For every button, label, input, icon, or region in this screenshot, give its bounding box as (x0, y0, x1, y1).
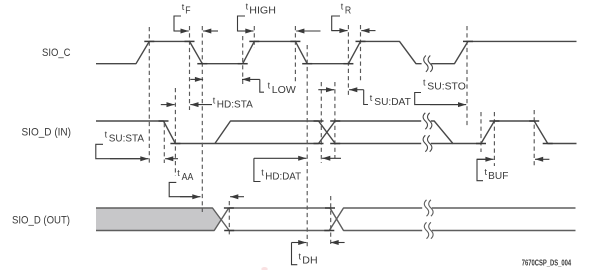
dashed guide line SIO_C fall2 end (306, 45, 308, 247)
leader line tR bracket (332, 16, 340, 31)
dashed guide line SIO_C rise4 top (stop) (466, 26, 468, 126)
arrow tHIGH right (296, 30, 320, 32)
measurement tick fall2 end (302, 63, 312, 65)
measurement tick IN fall start (159, 120, 169, 122)
arrow tSU:STA right (165, 158, 178, 160)
arrow tHD:DAT right (322, 157, 341, 159)
dashed guide line SIO_C rise1 top (148, 27, 150, 165)
dashed guide line SIO_C fall1 start (189, 26, 191, 110)
arrow tBUF arrow (477, 158, 494, 160)
measurement tick rise3 top (356, 40, 366, 42)
arrow tF left (points right at fall start) (174, 30, 189, 32)
arrow tAA right (230, 196, 244, 198)
svg-text:SU:STO: SU:STO (427, 81, 466, 92)
measurement tick IN X left bottom (314, 143, 324, 145)
measurement tick IN stop rise start (476, 143, 486, 145)
measurement tick IN X right bottom (330, 143, 340, 145)
measurement tick rise2 top (249, 40, 259, 42)
leader line tHD:DAT bracket (254, 158, 261, 181)
svg-text:R: R (345, 6, 351, 17)
wire SIO_D (IN) upper/lower rails (96, 121, 577, 144)
measurement tick rise3 start (343, 63, 353, 65)
break symbols on SIO_D (OUT) rails (424, 200, 433, 239)
dashed guide line SIO_D stop rise top (493, 112, 495, 166)
svg-text:F: F (185, 5, 190, 16)
faint pink artifact (261, 267, 267, 270)
leader line tBUF bracket (477, 159, 486, 180)
dashed guide line SIO_C rise3 top (360, 25, 362, 82)
dashed guide line SIO_C fall2 start (294, 26, 296, 83)
measurement tick IN X right top (330, 120, 340, 122)
measurement tick OUT X1 bottom (224, 230, 234, 232)
measurement tick OUT X2 bottom (324, 230, 334, 232)
measurement tick OUT X2 top (325, 207, 335, 209)
leader line tSU:STO bracket (415, 93, 458, 105)
dashed guide line SIO_C fall1 end (201, 26, 203, 212)
measurement tick OUT X1 top (224, 207, 234, 209)
leader line tAA bracket (169, 182, 193, 196)
svg-text:HIGH: HIGH (249, 6, 276, 17)
arrow tHD:STA right (190, 104, 212, 106)
measurement tick IN fall2 start (529, 120, 539, 122)
measurement tick IN X left top (314, 120, 324, 122)
svg-text:AA: AA (182, 172, 194, 183)
dashed guide line SIO_D OUT data valid (228, 201, 230, 237)
svg-text:SIO_D (IN): SIO_D (IN) (22, 127, 72, 139)
SIO_D (OUT) gray bus segment (96, 208, 229, 231)
measurement tick fall1 end (197, 63, 207, 65)
leader line tF bracket (174, 16, 181, 31)
dashed guide line SIO_D stop rise start (480, 112, 482, 152)
svg-text:DH: DH (302, 256, 317, 267)
svg-text:HD:STA: HD:STA (217, 100, 253, 111)
arrow tBUF right (535, 158, 549, 160)
arrow tHD:STA left (161, 104, 175, 106)
arrow tR right (361, 30, 375, 32)
dashed guide line SIO_C rise2 start (242, 36, 244, 84)
svg-text:SU:STA: SU:STA (109, 134, 145, 145)
dashed guide line SIO_D OUT data change (330, 196, 332, 246)
svg-text:7670CSP_DS_004: 7670CSP_DS_004 (522, 258, 572, 267)
arrow tSU:DAT left (318, 89, 334, 91)
arrow tSU:STA arrow (110, 158, 149, 160)
SIO_D (OUT) open bus rails with data change (229, 208, 576, 231)
svg-text:SIO_D (OUT): SIO_D (OUT) (12, 214, 70, 226)
arrow tDH arrow (292, 242, 307, 244)
svg-text:SU:DAT: SU:DAT (374, 97, 411, 108)
leader line tSU:STA bracket (96, 144, 141, 158)
arrow tR left (332, 30, 348, 32)
arrow tLOW right (242, 78, 260, 80)
arrow tAA arrow (180, 196, 201, 198)
svg-text:LOW: LOW (272, 85, 297, 96)
measurement tick fall1 start (185, 40, 195, 42)
dashed guide line SIO_C rise2 top (253, 26, 255, 48)
dashed guide line SIO_D data change start (320, 82, 322, 163)
arrow tF right (points left at fall end) (203, 30, 218, 32)
arrow tHIGH left (238, 30, 254, 32)
leader line tLOW elbow (260, 79, 264, 92)
leader line tDH bracket (292, 243, 298, 265)
dashed guide line SIO_C rise3 start (347, 25, 349, 95)
measurement tick rise2 start (238, 63, 248, 65)
dashed guide line SIO_D fall end (start cond) (174, 88, 176, 176)
arrow tHD:DAT arrow (254, 157, 307, 159)
measurement tick IN stop rise top (489, 120, 499, 122)
leader line tHIGH bracket (238, 16, 246, 31)
wire SIO_C waveform trace (96, 41, 577, 63)
leader line tSU:DAT elbow (364, 90, 368, 105)
svg-text:BUF: BUF (488, 171, 508, 182)
dashed guide line SIO_D next start fall (533, 110, 535, 166)
svg-text:HD:DAT: HD:DAT (265, 172, 301, 183)
break symbol on SIO_C low line (424, 56, 433, 72)
arrow tSU:STO arrow (430, 104, 466, 106)
measurement tick IN fall2 end (543, 143, 553, 145)
arrow tSU:DAT right (349, 89, 364, 91)
svg-text:SIO_C: SIO_C (42, 47, 71, 59)
measurement tick rise4 top (463, 40, 473, 42)
dashed guide line SIO_D fall start (163, 123, 165, 163)
arrow tDH right (331, 242, 345, 244)
dashed guide line SIO_D data change end (334, 82, 336, 158)
measurement tick rise1 top (144, 40, 154, 42)
arrow tLOW left (190, 78, 203, 80)
break symbols on SIO_D (IN) rails (423, 113, 432, 152)
measurement tick fall2 start (290, 40, 300, 42)
measurement tick IN fall end (170, 143, 180, 145)
